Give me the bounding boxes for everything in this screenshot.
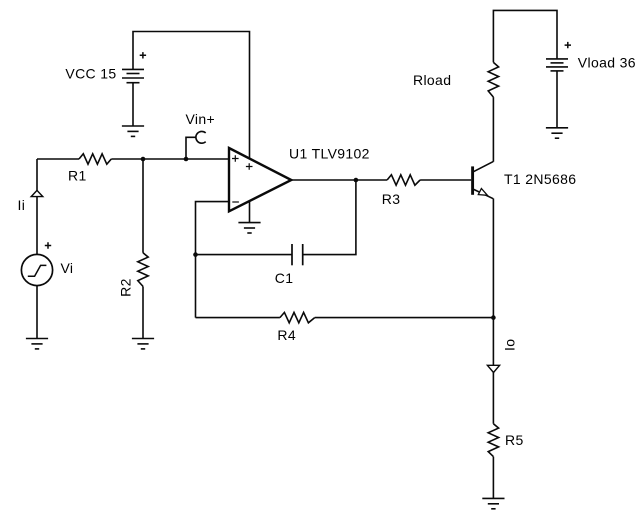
ground (op-amp): [238, 223, 260, 233]
svg-text:Vi: Vi: [61, 260, 74, 276]
wire op-amp ground stub: [249, 201, 251, 223]
wire inverting input feedback: left then down: [196, 202, 230, 318]
svg-text:R5: R5: [505, 432, 524, 448]
arrow Io (current direction, down): [487, 365, 499, 372]
wire R3 to transistor base: [420, 179, 471, 181]
svg-text:C1: C1: [275, 270, 294, 286]
svg-text:U1 TLV9102: U1 TLV9102: [289, 146, 370, 162]
wire battery VCC to ground: [132, 83, 134, 126]
svg-text:R4: R4: [277, 327, 296, 343]
node junction emitter/R4: [491, 315, 496, 320]
wire R4 to emitter node: [315, 317, 494, 319]
svg-text:VCC 15: VCC 15: [65, 66, 116, 82]
resistor R4: [280, 312, 315, 322]
ground (VCC): [122, 126, 144, 136]
wire VCC rail: battery top up, across, down to op-amp supply: [133, 32, 250, 159]
wire main input row left segment: [37, 158, 79, 160]
wire Vi to ground: [36, 286, 38, 339]
svg-text:Ii: Ii: [18, 197, 26, 213]
node junction R2 branch: [141, 157, 146, 162]
svg-text:T1 2N5686: T1 2N5686: [504, 171, 576, 187]
resistor R2: [138, 253, 148, 287]
probe hook Vin+: [196, 131, 206, 143]
wire C1 row right segment and up to output: [303, 180, 356, 255]
resistor R5: [488, 424, 498, 457]
resistor R3: [387, 175, 420, 185]
wire R2 branch down: [142, 159, 144, 253]
wire Vin+ probe stub: [186, 137, 196, 159]
battery VCC (V+): [122, 52, 146, 83]
wire R2 to ground: [142, 286, 144, 338]
ground (R2): [132, 339, 154, 349]
wire R5 to ground: [492, 457, 494, 499]
svg-text:Vload 36: Vload 36: [578, 55, 636, 71]
resistor Rload: [488, 62, 498, 97]
resistor R1: [79, 154, 111, 164]
svg-text:Io: Io: [502, 339, 518, 351]
node junction Vin+ probe: [184, 157, 189, 162]
wire output row: op-amp to R3: [291, 179, 387, 181]
wire Vi branch down from main row: [36, 159, 38, 255]
wire Vload to ground: [556, 71, 558, 128]
svg-text:Vin+: Vin+: [186, 111, 216, 127]
wire main input row right segment to op-amp + input: [111, 158, 229, 160]
ground (Vi): [26, 339, 48, 349]
transistor T1 2N5686 (NPN): [473, 162, 494, 199]
svg-text:R2: R2: [118, 278, 134, 297]
node junction C1 row: [193, 252, 198, 257]
ground (Vload): [546, 128, 568, 138]
node junction output: [354, 178, 359, 183]
op-amp U1 triangle: [229, 148, 291, 211]
wire emitter down to R5: [492, 199, 494, 424]
wire collector up to Rload: [492, 97, 494, 162]
svg-text:R1: R1: [68, 168, 87, 184]
wire top rail to Vload: [493, 10, 557, 62]
svg-text:Rload: Rload: [413, 72, 451, 88]
wire C1 row left segment: [196, 254, 293, 256]
capacitor C1: [292, 244, 303, 265]
svg-text:R3: R3: [382, 191, 401, 207]
wire R4 feedback row: [196, 317, 280, 319]
arrow Ii (current direction, up): [31, 190, 43, 196]
ground (R5): [482, 498, 504, 508]
battery Vload: [546, 42, 571, 71]
source Vi (circle with ramp): [21, 242, 52, 285]
